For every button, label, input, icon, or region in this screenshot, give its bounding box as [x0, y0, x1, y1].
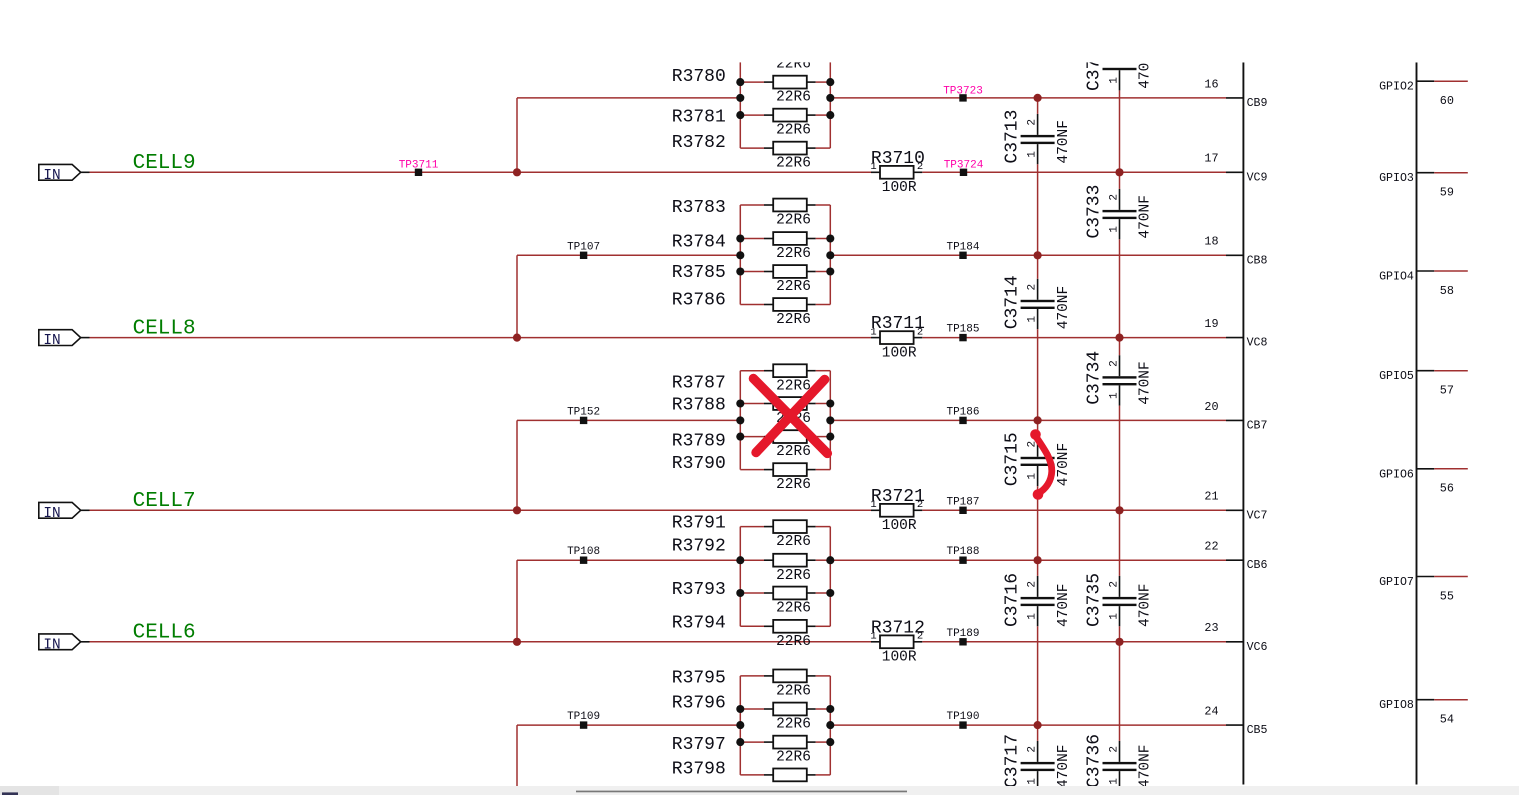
- junction ladder group3 (740.3,436.6): [736, 433, 744, 441]
- svg-text:470NF: 470NF: [1138, 583, 1154, 627]
- svg-text:22R6: 22R6: [776, 378, 811, 394]
- annotation red squiggle at C3715: [1030, 429, 1052, 500]
- resistor R3797: [740, 736, 830, 749]
- junction ladder group5 wire (740.3,725.1): [736, 721, 744, 729]
- svg-text:CB6: CB6: [1247, 559, 1268, 572]
- wire riser CB7 at x517: [516, 420, 518, 510]
- wire rail to C3734 top: [1119, 338, 1121, 356]
- junction ladder group5 wire (830.3,725.1): [826, 721, 834, 729]
- pin 17 VC9: [1204, 152, 1267, 185]
- testpoint TP108: [567, 546, 600, 564]
- testpoint TP188: [946, 546, 979, 564]
- wire ladder left rail group1: [739, 49, 741, 148]
- svg-text:59: 59: [1440, 186, 1454, 200]
- svg-text:R3788: R3788: [672, 396, 726, 416]
- junction ladder group3 (740.3,403.5): [736, 399, 744, 407]
- svg-text:C3736: C3736: [1085, 734, 1105, 788]
- pin 19 VC8: [1204, 317, 1267, 350]
- scrollbar track: [0, 786, 1519, 795]
- wire ladder left rail group2: [739, 205, 741, 305]
- junction ladder group2 wire (740.3,255.3): [736, 251, 744, 259]
- wire VC9 right segment: [922, 171, 1226, 173]
- junction rail A at CB5: [1034, 721, 1042, 729]
- wire rail B segment CB8-VC8: [1119, 255, 1121, 337]
- wire riser CB8 at x517: [516, 255, 518, 337]
- junction ladder group2 (830.3,271.5): [826, 267, 834, 275]
- svg-text:23: 23: [1204, 621, 1218, 635]
- testpoint TP185: [946, 324, 979, 342]
- wire CB6 right segment: [830, 559, 1226, 561]
- svg-text:1: 1: [1108, 392, 1120, 399]
- resistor R3794: [740, 620, 830, 633]
- junction ladder group4 (830.3,560.2): [826, 556, 834, 564]
- svg-text:22R6: 22R6: [776, 279, 811, 295]
- svg-text:1: 1: [870, 499, 876, 511]
- svg-text:IN: IN: [43, 506, 60, 522]
- svg-text:CB7: CB7: [1247, 419, 1268, 432]
- svg-text:22R6: 22R6: [776, 634, 811, 650]
- svg-text:C3714: C3714: [1003, 275, 1023, 329]
- junction rail B at VC9: [1115, 168, 1123, 176]
- svg-text:56: 56: [1440, 482, 1454, 496]
- svg-text:R3781: R3781: [672, 108, 726, 128]
- junction ladder group1 wire (830.3,97.9): [826, 94, 834, 102]
- resistor R3795: [740, 670, 830, 683]
- svg-text:22R6: 22R6: [776, 213, 811, 229]
- resistor R3711: [871, 331, 922, 344]
- svg-text:1: 1: [1026, 151, 1038, 158]
- svg-text:60: 60: [1440, 94, 1454, 108]
- svg-text:CB8: CB8: [1247, 254, 1268, 267]
- svg-text:TP108: TP108: [567, 546, 600, 558]
- svg-text:57: 57: [1440, 384, 1454, 398]
- pin 24 CB5: [1204, 705, 1267, 738]
- wire riser CB6 at x517: [516, 560, 518, 642]
- wire rail A segment VC6-CB5: [1037, 642, 1039, 725]
- svg-text:TP3711: TP3711: [399, 160, 439, 172]
- svg-text:TP109: TP109: [567, 711, 600, 723]
- svg-text:C3716: C3716: [1003, 573, 1023, 627]
- junction ladder group4 (740.3,560.2): [736, 556, 744, 564]
- svg-text:TP3723: TP3723: [943, 85, 983, 97]
- svg-text:470NF: 470NF: [1138, 361, 1154, 405]
- wire CB7 left segment: [517, 419, 740, 421]
- svg-text:2: 2: [917, 326, 923, 338]
- wire rail from C3733 bottom: [1119, 239, 1121, 255]
- svg-text:1: 1: [1108, 613, 1120, 620]
- svg-text:R3787: R3787: [672, 374, 726, 394]
- svg-text:TP184: TP184: [946, 241, 979, 253]
- testpoint TP3724: [944, 160, 984, 176]
- testpoint TP3723: [943, 85, 983, 101]
- svg-text:R3790: R3790: [672, 454, 726, 474]
- svg-text:1: 1: [1108, 778, 1120, 785]
- wire VC8 right segment: [922, 337, 1226, 339]
- junction ladder group1 wire (740.3,97.9): [736, 94, 744, 102]
- wire CB8 left segment: [517, 254, 740, 256]
- resistor R3798: [740, 769, 830, 782]
- svg-text:R3789: R3789: [672, 432, 726, 452]
- svg-text:21: 21: [1204, 490, 1218, 504]
- svg-text:TP188: TP188: [946, 546, 979, 558]
- junction rail B at VC6: [1115, 638, 1123, 646]
- svg-text:R3784: R3784: [672, 233, 726, 253]
- scrollbar corner box: [0, 786, 59, 795]
- wire VC7 left segment: [90, 509, 872, 511]
- svg-text:R3783: R3783: [672, 198, 726, 218]
- pin 59 GPIO3: [1379, 172, 1468, 199]
- svg-text:VC7: VC7: [1247, 509, 1268, 522]
- svg-text:R3785: R3785: [672, 263, 726, 283]
- capacitor C3717: [1021, 741, 1055, 786]
- pin of port CELL6: [81, 641, 90, 643]
- capacitor C3713: [1103, 68, 1137, 91]
- svg-text:2: 2: [917, 631, 923, 643]
- wire rail to C3716 top: [1037, 560, 1039, 576]
- svg-text:1: 1: [870, 161, 876, 173]
- pin 54 GPIO8: [1379, 699, 1468, 726]
- svg-text:IN: IN: [43, 333, 60, 349]
- wire rail from C3713 bottom: [1037, 164, 1039, 172]
- testpoint TP189: [946, 628, 979, 646]
- svg-text:VC9: VC9: [1247, 171, 1268, 184]
- svg-text:22R6: 22R6: [776, 477, 811, 493]
- pin 56 GPIO6: [1379, 468, 1468, 495]
- svg-text:R3794: R3794: [672, 614, 726, 634]
- svg-text:TP187: TP187: [946, 496, 979, 508]
- wire rail A segment VC9-CB8: [1037, 172, 1039, 255]
- svg-text:CB9: CB9: [1247, 97, 1268, 110]
- resistor R3789: [740, 430, 830, 443]
- svg-text:R3791: R3791: [672, 514, 726, 534]
- pin of port CELL9: [81, 171, 90, 173]
- junction ladder group4 (740.3,593.0): [736, 589, 744, 597]
- svg-text:1: 1: [1026, 778, 1038, 785]
- wire ladder right rail group5: [829, 676, 831, 775]
- svg-text:1: 1: [870, 326, 876, 338]
- svg-text:2: 2: [917, 161, 923, 173]
- svg-text:16: 16: [1204, 77, 1218, 91]
- capacitor C3735: [1103, 576, 1137, 626]
- wire rail from C3735 bottom: [1119, 626, 1121, 642]
- wire rail from C3713 bottom: [1119, 90, 1121, 98]
- wire ladder left rail group4: [739, 527, 741, 627]
- capacitor C3713: [1021, 114, 1055, 164]
- wire rail from C3734 bottom: [1119, 406, 1121, 421]
- wire ladder right rail group2: [829, 205, 831, 305]
- resistor R3784: [740, 232, 830, 245]
- junction at (517,510.3): [513, 506, 521, 514]
- svg-text:R3792: R3792: [672, 537, 726, 557]
- junction ladder group2 (830.3,238.5): [826, 234, 834, 242]
- svg-text:GPIO6: GPIO6: [1379, 468, 1414, 481]
- pin 60 GPIO2: [1379, 81, 1468, 108]
- svg-text:GPIO8: GPIO8: [1379, 699, 1414, 712]
- junction rail A at CB6: [1034, 556, 1042, 564]
- junction at (517,641.8): [513, 638, 521, 646]
- port IN CELL9: [39, 164, 81, 184]
- svg-text:GPIO7: GPIO7: [1379, 576, 1414, 589]
- svg-text:22: 22: [1204, 540, 1218, 554]
- viewport top clip: [0, 0, 1519, 62]
- testpoint TP187: [946, 496, 979, 514]
- svg-text:2: 2: [1108, 360, 1120, 367]
- svg-text:C3715: C3715: [1003, 432, 1023, 486]
- pin 23 VC6: [1204, 621, 1267, 654]
- junction rail B at VC7: [1115, 506, 1123, 514]
- wire rail from C3714 bottom: [1037, 329, 1039, 337]
- svg-text:22R6: 22R6: [776, 750, 811, 766]
- svg-text:TP189: TP189: [946, 628, 979, 640]
- resistor R3790: [740, 463, 830, 476]
- svg-text:C3735: C3735: [1085, 573, 1105, 627]
- capacitor C3733: [1103, 189, 1137, 239]
- svg-text:R3798: R3798: [672, 760, 726, 780]
- svg-text:22R6: 22R6: [776, 444, 811, 460]
- pin 16 CB9: [1204, 77, 1267, 110]
- svg-text:2: 2: [1108, 746, 1120, 753]
- svg-text:2: 2: [1108, 194, 1120, 201]
- resistor R3781: [740, 109, 830, 122]
- resistor R3780: [740, 76, 830, 89]
- wire ladder right rail group1: [829, 49, 831, 148]
- svg-text:C3734: C3734: [1085, 351, 1105, 405]
- junction at (517,172.3): [513, 168, 521, 176]
- wire riser CB5 at x517 (from below): [516, 725, 518, 786]
- junction ladder group2 wire (830.3,255.3): [826, 251, 834, 259]
- wire rail B segment CB7-CB6: [1119, 420, 1121, 560]
- svg-text:R3786: R3786: [672, 290, 726, 310]
- testpoint TP3711: [399, 160, 439, 176]
- svg-text:470NF: 470NF: [1056, 744, 1072, 788]
- wire ladder left rail group5: [739, 676, 741, 775]
- svg-text:TP186: TP186: [946, 406, 979, 418]
- svg-text:22R6: 22R6: [776, 534, 811, 550]
- svg-text:1: 1: [1108, 77, 1120, 84]
- svg-text:GPIO5: GPIO5: [1379, 370, 1414, 383]
- resistor R3788: [740, 397, 830, 410]
- pin 58 GPIO4: [1379, 271, 1468, 298]
- svg-text:R3795: R3795: [672, 669, 726, 689]
- pin 55 GPIO7: [1379, 576, 1468, 603]
- svg-text:GPIO3: GPIO3: [1379, 172, 1414, 185]
- svg-text:TP107: TP107: [567, 241, 600, 253]
- svg-text:22R6: 22R6: [776, 156, 811, 172]
- wire CB5 right segment: [830, 724, 1226, 726]
- capacitor C3714: [1021, 279, 1055, 329]
- junction rail B at VC8: [1115, 334, 1123, 342]
- pin 21 VC7: [1204, 490, 1267, 523]
- svg-text:1: 1: [1026, 316, 1038, 323]
- wire CB6 left segment: [517, 559, 740, 561]
- capacitor C3715: [1021, 436, 1055, 486]
- svg-text:1: 1: [1108, 226, 1120, 233]
- junction ladder group3 (830.3,436.6): [826, 433, 834, 441]
- capacitor C3716: [1021, 576, 1055, 626]
- svg-text:2: 2: [1026, 581, 1038, 588]
- svg-text:58: 58: [1440, 284, 1454, 298]
- svg-text:C3717: C3717: [1003, 734, 1023, 788]
- svg-text:2: 2: [1026, 119, 1038, 126]
- wire ladder left rail group3: [739, 371, 741, 470]
- pin of port CELL7: [81, 509, 90, 511]
- svg-text:R3796: R3796: [672, 693, 726, 713]
- wire rail from C3715 bottom: [1037, 486, 1039, 510]
- svg-text:24: 24: [1204, 705, 1218, 719]
- svg-text:1: 1: [870, 631, 876, 643]
- svg-text:2: 2: [1108, 581, 1120, 588]
- resistor R3796: [740, 703, 830, 716]
- svg-text:2: 2: [917, 499, 923, 511]
- svg-text:22R6: 22R6: [776, 601, 811, 617]
- wire CB9 left segment: [517, 97, 740, 99]
- svg-text:100R: 100R: [882, 650, 917, 666]
- svg-text:IN: IN: [43, 637, 60, 653]
- junction ladder group2 (740.3,238.5): [736, 234, 744, 242]
- junction rail A at CB7: [1034, 416, 1042, 424]
- junction ladder group3 (830.3,403.5): [826, 399, 834, 407]
- svg-text:55: 55: [1440, 589, 1454, 603]
- wire rail to C3714 top: [1037, 255, 1039, 278]
- svg-text:GPIO4: GPIO4: [1379, 271, 1414, 284]
- svg-text:TP185: TP185: [946, 324, 979, 336]
- svg-text:IN: IN: [43, 168, 60, 184]
- svg-text:2: 2: [1026, 284, 1038, 291]
- svg-text:100R: 100R: [882, 345, 917, 361]
- wire rail to C3736 top: [1119, 725, 1121, 741]
- svg-text:2: 2: [1026, 746, 1038, 753]
- wire rail A segment VC7-CB6: [1037, 510, 1039, 560]
- junction ladder group1 (830.3,82.1): [826, 78, 834, 86]
- testpoint TP109: [567, 711, 600, 729]
- svg-text:22R6: 22R6: [776, 717, 811, 733]
- component edge U? left connector column: [1242, 62, 1244, 784]
- capacitor C3734: [1103, 355, 1137, 405]
- svg-text:1: 1: [1026, 613, 1038, 620]
- resistor R3721: [871, 504, 922, 517]
- svg-text:TP3724: TP3724: [944, 160, 984, 172]
- junction ladder group1 (830.3,115.1): [826, 111, 834, 119]
- svg-text:22R6: 22R6: [776, 90, 811, 106]
- pin 22 CB6: [1204, 540, 1267, 573]
- wire rail from C3716 bottom: [1037, 626, 1039, 642]
- wire ladder right rail group3: [829, 371, 831, 470]
- port IN CELL7: [39, 502, 81, 522]
- junction ladder group3 wire (740.3,420.4): [736, 416, 744, 424]
- svg-text:100R: 100R: [882, 518, 917, 534]
- wire rail to C3715 top: [1037, 420, 1039, 435]
- svg-text:22R6: 22R6: [776, 684, 811, 700]
- svg-text:470NF: 470NF: [1056, 583, 1072, 627]
- junction ladder group5 (830.3,742.1): [826, 738, 834, 746]
- wire VC6 right segment: [922, 641, 1226, 643]
- junction rail A at CB9: [1034, 94, 1042, 102]
- svg-text:VC8: VC8: [1247, 337, 1268, 350]
- svg-text:R3782: R3782: [672, 133, 726, 153]
- wire rail to C3717 top: [1037, 725, 1039, 741]
- junction ladder group1 (740.3,82.1): [736, 78, 744, 86]
- wire ladder right rail group4: [829, 527, 831, 627]
- svg-text:22R6: 22R6: [776, 246, 811, 262]
- resistor R3782: [740, 142, 830, 155]
- svg-text:470NF: 470NF: [1056, 443, 1072, 487]
- testpoint TP186: [946, 406, 979, 424]
- resistor R3779: [740, 43, 830, 56]
- resistor R3787: [740, 364, 830, 377]
- pin 20 CB7: [1204, 400, 1267, 433]
- testpoint TP107: [567, 241, 600, 259]
- resistor R3792: [740, 554, 830, 567]
- junction ladder group5 (830.3,709.0): [826, 705, 834, 713]
- resistor R3786: [740, 298, 830, 311]
- svg-text:20: 20: [1204, 400, 1218, 414]
- wire riser CB9 at x517: [516, 98, 518, 172]
- annotation red X over R3787-R3790: [753, 379, 827, 454]
- svg-text:R3793: R3793: [672, 580, 726, 600]
- wire CB7 right segment: [830, 419, 1226, 421]
- capacitor C3736: [1103, 741, 1137, 786]
- junction ladder group5 (740.3,742.1): [736, 738, 744, 746]
- status text fragment (cut): [2, 792, 18, 795]
- svg-text:1: 1: [1026, 473, 1038, 480]
- scrollbar thumb: [576, 791, 907, 793]
- junction ladder group3 wire (830.3,420.4): [826, 416, 834, 424]
- svg-text:GPIO2: GPIO2: [1379, 81, 1414, 94]
- wire VC8 left segment: [90, 337, 872, 339]
- svg-text:19: 19: [1204, 317, 1218, 331]
- svg-text:CB5: CB5: [1247, 724, 1268, 737]
- svg-text:22R6: 22R6: [776, 123, 811, 139]
- svg-text:470NF: 470NF: [1138, 195, 1154, 239]
- svg-text:470NF: 470NF: [1138, 744, 1154, 788]
- svg-text:TP190: TP190: [946, 711, 979, 723]
- wire rail B segment CB9-VC9: [1119, 98, 1121, 172]
- wire CB8 right segment: [830, 254, 1226, 256]
- svg-text:C3713: C3713: [1003, 110, 1023, 164]
- wire VC7 right segment: [922, 509, 1226, 511]
- testpoint TP190: [946, 711, 979, 729]
- svg-text:C3733: C3733: [1085, 185, 1105, 239]
- svg-text:100R: 100R: [882, 180, 917, 196]
- wire rail A segment VC8-CB7: [1037, 338, 1039, 421]
- junction ladder group1 (740.3,115.1): [736, 111, 744, 119]
- svg-text:470NF: 470NF: [1056, 286, 1072, 330]
- testpoint TP184: [946, 241, 979, 259]
- svg-text:470NF: 470NF: [1056, 120, 1072, 164]
- junction ladder group2 (740.3,271.5): [736, 267, 744, 275]
- svg-text:22R6: 22R6: [776, 568, 811, 584]
- wire CB5 left segment: [517, 724, 740, 726]
- wire VC6 left segment: [90, 641, 872, 643]
- port IN CELL8: [39, 330, 81, 350]
- junction ladder group4 (830.3,593.0): [826, 589, 834, 597]
- junction at (517,337.6): [513, 334, 521, 342]
- junction ladder group5 (740.3,709.0): [736, 705, 744, 713]
- svg-text:TP152: TP152: [567, 406, 600, 418]
- wire rail B segment VC6-CB5: [1119, 642, 1121, 725]
- pin 18 CB8: [1204, 235, 1267, 268]
- wire CB9 right segment: [830, 97, 1226, 99]
- testpoint TP152: [567, 406, 600, 424]
- wire rail to C3733 top: [1119, 172, 1121, 189]
- wire VC9 left segment: [90, 171, 872, 173]
- resistor R3793: [740, 587, 830, 600]
- component edge U? GPIO column: [1416, 62, 1418, 784]
- svg-text:18: 18: [1204, 235, 1218, 249]
- wire rail to C3713 top: [1037, 98, 1039, 114]
- junction rail A at CB8: [1034, 251, 1042, 259]
- svg-text:22R6: 22R6: [776, 312, 811, 328]
